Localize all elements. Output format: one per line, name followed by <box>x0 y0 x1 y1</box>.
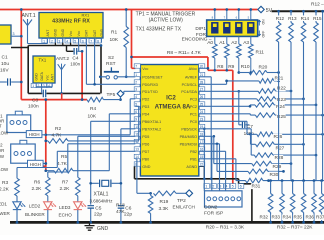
wire GND from IC2 pin8 and AGND to bus <box>135 166 252 222</box>
wire PD2 to sensor1 <box>46 99 136 135</box>
wire right column D <box>315 42 317 181</box>
svg-text:A2: A2 <box>231 40 237 46</box>
svg-text:R12 –: R12 – <box>311 2 324 8</box>
svg-text:PB1: PB1 <box>190 157 197 161</box>
wire GND stub from IC1 <box>11 47 28 49</box>
svg-text:4: 4 <box>66 39 68 43</box>
svg-text:2.2K: 2.2K <box>0 187 10 193</box>
CON2 pin number 3 <box>218 184 224 189</box>
svg-text:R31: R31 <box>252 184 261 190</box>
svg-text:LED2: LED2 <box>29 203 41 208</box>
svg-text:PC4/SDA: PC4/SDA <box>181 90 197 94</box>
svg-text:LED1: LED1 <box>0 202 7 207</box>
resistor R4 <box>87 97 104 102</box>
resistors R12-R15 pullups <box>277 10 280 13</box>
svg-text:DAT: DAT <box>85 30 89 37</box>
capacitor C7 <box>242 122 244 128</box>
svg-text:TP2: TP2 <box>177 198 186 204</box>
resistor R22 <box>199 90 258 92</box>
resistor R18 <box>149 192 152 195</box>
svg-text:C6: C6 <box>125 205 131 211</box>
wire XTAL1 pin9 <box>91 121 136 204</box>
resistors R32-R37 <box>269 179 272 182</box>
junction Vcc drop <box>130 56 133 59</box>
5V supply diamond <box>258 6 264 12</box>
svg-text:4: 4 <box>135 95 137 99</box>
svg-text:GND: GND <box>100 28 104 36</box>
DIP1 switch 4 <box>247 22 254 33</box>
svg-text:R34: R34 <box>283 215 292 220</box>
svg-text:2.2K: 2.2K <box>60 186 71 192</box>
svg-text:1: 1 <box>135 73 137 77</box>
svg-text:R6: R6 <box>34 180 40 186</box>
DIP1 pin stubs 4 <box>250 10 252 21</box>
svg-text:R27: R27 <box>276 145 285 151</box>
svg-text:R20: R20 <box>259 65 268 71</box>
svg-text:E LOW: E LOW <box>0 167 9 172</box>
svg-text:ON: ON <box>262 19 266 25</box>
DIP1 switch 2 <box>223 22 230 33</box>
svg-text:RST: RST <box>106 61 116 67</box>
svg-text:R15: R15 <box>313 16 322 21</box>
svg-text:R20 – R31 = 3.3K: R20 – R31 = 3.3K <box>206 224 245 230</box>
resistor R29 <box>212 135 215 138</box>
svg-text:BLINKER: BLINKER <box>25 212 45 217</box>
DIP1 pin stubs 1 <box>214 10 216 21</box>
svg-text:(ACTIVE LOW): (ACTIVE LOW) <box>149 18 184 24</box>
svg-text:R2: R2 <box>55 126 61 132</box>
svg-text:ANT: ANT <box>51 74 55 81</box>
svg-text:1: 1 <box>32 84 34 88</box>
svg-text:R35: R35 <box>294 215 303 220</box>
svg-text:13: 13 <box>135 147 139 151</box>
wire PD6 to LED2 <box>48 144 136 178</box>
wire GND black drop from RX pin8 <box>100 46 102 94</box>
svg-text:PC5/SCL: PC5/SCL <box>182 83 197 87</box>
capacitor C5 <box>88 206 95 208</box>
svg-text:TX1 433MHZ RF TX: TX1 433MHZ RF TX <box>136 26 182 32</box>
wire PB4/MISO to ISP <box>199 136 212 191</box>
svg-text:PD5: PD5 <box>142 135 149 139</box>
svg-text:4.7K: 4.7K <box>57 161 68 167</box>
svg-text:R1: R1 <box>111 30 117 36</box>
svg-text:R12: R12 <box>276 16 285 21</box>
svg-text:PC2: PC2 <box>190 105 197 109</box>
svg-text:R11: R11 <box>256 50 265 56</box>
wire PD7 to LED1 <box>17 151 135 178</box>
svg-text:R13: R13 <box>288 16 297 21</box>
svg-text:GND: GND <box>35 73 39 81</box>
svg-text:R5: R5 <box>61 154 67 160</box>
svg-text:CON2: CON2 <box>204 204 218 210</box>
svg-text:PD2: PD2 <box>142 97 149 101</box>
svg-text:C4: C4 <box>72 56 78 62</box>
connector sensor 2 <box>11 144 36 163</box>
wires R10 R11 bottoms to R20 row <box>239 58 251 73</box>
svg-text:47K: 47K <box>116 209 125 215</box>
svg-text:22: 22 <box>200 162 204 166</box>
svg-text:PB2: PB2 <box>190 150 197 154</box>
svg-text:R4: R4 <box>90 106 96 112</box>
wire PB3/MOSI to ISP <box>199 144 220 191</box>
CON2 pin number 6 <box>238 184 244 189</box>
svg-text:3: 3 <box>43 84 45 88</box>
svg-text:TP1 = MANUAL TRIGGER: TP1 = MANUAL TRIGGER <box>136 11 196 17</box>
svg-text:R7: R7 <box>62 180 68 186</box>
wire AVREF to AGND <box>199 77 211 179</box>
wire 5V drop x131 <box>132 10 208 69</box>
RF transmitter module TX1 <box>33 56 55 83</box>
svg-text:Vcc: Vcc <box>45 75 49 81</box>
wire PD5 to LED3 <box>78 136 136 177</box>
svg-text:ANT: ANT <box>46 30 50 37</box>
wire GND bus bottom <box>10 221 324 224</box>
wire black pullup bus top right <box>272 10 324 12</box>
svg-text:DAT: DAT <box>93 30 97 37</box>
svg-text:DATA: DATA <box>40 71 44 80</box>
wire TX1 pins bottom <box>36 83 52 93</box>
svg-text:R24: R24 <box>276 104 285 110</box>
CON2 pin number 1 <box>204 184 210 189</box>
wire AVcc stub <box>199 67 208 69</box>
svg-text:PD0/RXD: PD0/RXD <box>142 83 158 87</box>
svg-text:AGND: AGND <box>186 165 197 169</box>
resistor R1 <box>125 10 127 27</box>
svg-text:R30: R30 <box>270 172 279 178</box>
connector sensor 1 <box>7 115 31 133</box>
svg-text:100n: 100n <box>70 62 80 67</box>
wire PB0 to TP2 EN/LATCH <box>135 159 150 194</box>
wire GND black left drop <box>27 46 29 94</box>
resistor R26 <box>199 121 257 134</box>
svg-text:2: 2 <box>38 84 40 88</box>
svg-text:3.3K: 3.3K <box>159 206 170 212</box>
svg-text:2: 2 <box>51 39 53 43</box>
svg-text:2: 2 <box>212 185 214 189</box>
svg-text:R32: R32 <box>260 215 269 220</box>
svg-text:5: 5 <box>74 39 76 43</box>
wire XTAL2 pin10 <box>121 129 135 205</box>
wire PB2 to ISP <box>199 151 226 191</box>
svg-text:IC2: IC2 <box>166 95 176 102</box>
svg-text:R33: R33 <box>272 215 281 220</box>
crystal XTAL1 <box>91 182 121 184</box>
svg-text:LED3: LED3 <box>59 205 71 210</box>
DIP1 pin stubs 2 <box>226 10 228 21</box>
wire right column C <box>303 42 305 181</box>
LED1 power <box>13 202 21 209</box>
svg-text:7: 7 <box>135 64 137 68</box>
svg-text:PB5/SCK: PB5/SCK <box>181 127 197 131</box>
svg-text:8: 8 <box>97 39 99 43</box>
regulator IC1 cut at left edge <box>0 25 11 44</box>
svg-text:3: 3 <box>58 39 60 43</box>
wire right column E <box>322 11 324 180</box>
svg-text:A3: A3 <box>243 40 249 46</box>
svg-text:AVcc: AVcc <box>189 67 197 71</box>
CON2 pin number 5 <box>230 184 236 189</box>
resistor R2 <box>48 139 68 144</box>
svg-text:XTAL1: XTAL1 <box>94 192 109 198</box>
svg-text:Vcc: Vcc <box>142 67 148 71</box>
svg-text:R36: R36 <box>306 215 315 220</box>
svg-text:R9: R9 <box>228 64 234 70</box>
svg-text:PB4/MISO: PB4/MISO <box>180 135 198 139</box>
svg-text:100n: 100n <box>28 104 39 110</box>
resistor R5 <box>54 168 73 173</box>
svg-text:ANT.2: ANT.2 <box>56 56 69 62</box>
svg-text:C3: C3 <box>32 98 38 104</box>
svg-text:16V: 16V <box>0 68 9 74</box>
svg-text:ATMEGA 8A: ATMEGA 8A <box>155 104 191 111</box>
svg-text:R32 – R37= 22K: R32 – R37= 22K <box>277 224 313 230</box>
svg-text:OFF: OFF <box>262 31 266 38</box>
svg-text:EN/LATCH: EN/LATCH <box>173 205 195 210</box>
svg-text:6: 6 <box>240 185 242 189</box>
svg-text:22p: 22p <box>124 212 132 218</box>
wire RX1 DAT to IC2 RXD <box>86 43 135 85</box>
wire 5V left net from IC1 <box>21 10 87 171</box>
wire 5V top rail <box>0 9 258 11</box>
svg-text:1: 1 <box>43 39 45 43</box>
wire SDA row to C7 <box>237 90 240 93</box>
DIP1 ON OFF arrows <box>258 20 261 25</box>
svg-text:1: 1 <box>205 185 207 189</box>
wires R8 R9 bottoms to red rail <box>215 58 227 70</box>
svg-text:PC6/RESET: PC6/RESET <box>142 75 163 79</box>
resistor R20 <box>239 72 249 74</box>
wire PB5/SCK to ISP <box>203 129 205 191</box>
svg-text:7: 7 <box>90 39 92 43</box>
svg-text:PB6/XTAL1: PB6/XTAL1 <box>142 120 161 124</box>
resistor R27 <box>249 133 252 136</box>
LED2 blinker <box>44 202 52 209</box>
svg-text:100n: 100n <box>244 131 255 136</box>
resistor R19 <box>154 191 177 196</box>
CON2 pin number 2 <box>211 184 217 189</box>
svg-text:ANT.1: ANT.1 <box>22 13 36 19</box>
svg-text:PD6: PD6 <box>142 142 149 146</box>
svg-text:3: 3 <box>13 32 15 36</box>
resistor R31 <box>199 159 246 181</box>
svg-text:FOR: FOR <box>0 148 4 153</box>
wire PD4 to R5 <box>73 114 135 171</box>
svg-text:10K: 10K <box>88 114 97 120</box>
svg-text:6: 6 <box>135 110 137 114</box>
svg-text:HIGH: HIGH <box>29 132 40 137</box>
svg-text:C5: C5 <box>95 205 101 211</box>
svg-text:C1: C1 <box>2 55 8 61</box>
CON2 pin number 4 <box>224 184 230 189</box>
svg-text:10u: 10u <box>1 61 9 67</box>
svg-text:ECHO: ECHO <box>59 213 73 218</box>
RF receiver module RX1 <box>39 13 103 39</box>
svg-text:GND: GND <box>54 28 58 36</box>
resistor R21 <box>199 81 259 84</box>
svg-text:GND: GND <box>97 226 109 232</box>
svg-text:6: 6 <box>82 39 84 43</box>
wire right column A <box>278 42 280 181</box>
svg-text:PD3: PD3 <box>142 105 149 109</box>
svg-text:AVREF: AVREF <box>185 75 198 79</box>
svg-text:3.6864MHz: 3.6864MHz <box>90 199 114 204</box>
capacitor C3 <box>28 92 100 94</box>
svg-text:R14: R14 <box>301 16 310 21</box>
resistor R6 <box>46 177 51 196</box>
ground symbol <box>89 222 91 225</box>
svg-text:A1: A1 <box>219 40 225 46</box>
resistor R7 <box>76 177 81 196</box>
svg-text:GND: GND <box>61 28 65 36</box>
svg-text:PC3: PC3 <box>190 97 197 101</box>
DIP1 switch 1 <box>211 22 218 33</box>
svg-text:RX1: RX1 <box>82 13 91 18</box>
svg-text:HIGH: HIGH <box>30 162 41 167</box>
svg-text:POWER: POWER <box>0 211 11 216</box>
test point TP2 EN/LATCH <box>176 192 186 194</box>
wire RX1 GND pins to black <box>55 43 70 46</box>
wire PD3 to R2 <box>68 106 139 141</box>
capacitor C6 <box>118 206 125 208</box>
svg-text:PC0: PC0 <box>190 120 197 124</box>
resistor R30 <box>216 142 219 145</box>
svg-text:GND: GND <box>142 165 151 169</box>
svg-text:Vcc: Vcc <box>77 31 81 37</box>
LED3 echo <box>74 202 82 209</box>
svg-text:PB0: PB0 <box>142 157 149 161</box>
svg-text:R3: R3 <box>2 180 8 186</box>
svg-text:E LOW: E LOW <box>0 131 9 136</box>
svg-text:S2: S2 <box>108 55 114 61</box>
wire reset line <box>100 76 135 78</box>
resistors R8 R9 R10 R11 <box>213 44 218 58</box>
svg-text:22p: 22p <box>94 212 102 218</box>
svg-text:A0: A0 <box>207 40 213 46</box>
resistor R25 <box>199 114 255 115</box>
resistor R28 <box>199 129 254 155</box>
svg-text:PC1: PC1 <box>190 112 197 116</box>
svg-text:4: 4 <box>48 84 50 88</box>
svg-text:433MHz RF RX: 433MHz RF RX <box>52 19 90 25</box>
svg-text:R29: R29 <box>273 164 282 170</box>
svg-text:PD4: PD4 <box>142 112 149 116</box>
svg-text:Vcc: Vcc <box>69 31 73 37</box>
wire right column B <box>290 42 292 181</box>
svg-text:R8 – R11= 4.7K: R8 – R11= 4.7K <box>167 50 202 56</box>
resistor R24 <box>199 105 255 106</box>
svg-text:R8: R8 <box>217 64 223 70</box>
svg-text:PB3/MOSI: PB3/MOSI <box>180 142 197 146</box>
svg-text:R18: R18 <box>116 202 125 208</box>
resistor R23 <box>199 98 257 100</box>
svg-text:PD1/TXD: PD1/TXD <box>142 90 158 94</box>
svg-text:R19: R19 <box>160 199 169 205</box>
svg-text:R10: R10 <box>241 64 250 70</box>
svg-text:FOR ISP: FOR ISP <box>204 211 223 217</box>
capacitor C4 <box>67 46 74 52</box>
DIP1 pin stubs 3 <box>238 10 240 21</box>
wire GND black horizontal under RX1 <box>28 45 101 47</box>
microcontroller IC2 ATMEGA 8A <box>140 65 198 177</box>
svg-text:R37: R37 <box>316 215 324 220</box>
svg-text:PB7/XTAL2: PB7/XTAL2 <box>142 127 161 131</box>
resistor R3 <box>15 178 20 196</box>
wire 5V to AVcc and R8-R11 rail <box>208 57 233 184</box>
svg-text:5: 5 <box>232 185 234 189</box>
label HIGH 2 <box>28 160 44 167</box>
svg-text:2.2K: 2.2K <box>32 186 43 192</box>
svg-text:4.7K: 4.7K <box>52 132 63 138</box>
svg-text:9: 9 <box>135 117 137 121</box>
DIP1 switch 3 <box>235 22 242 33</box>
svg-text:DIP1: DIP1 <box>195 26 206 32</box>
svg-text:3: 3 <box>135 87 137 91</box>
svg-text:TP5: TP5 <box>107 92 116 98</box>
svg-text:10K: 10K <box>110 37 119 43</box>
wire AGND stub <box>199 166 204 179</box>
label HIGH 1 <box>26 131 42 138</box>
svg-text:2: 2 <box>135 80 137 84</box>
svg-text:PD7: PD7 <box>142 150 149 154</box>
connector CON2 for ISP <box>205 191 243 207</box>
svg-text:TX1: TX1 <box>39 58 47 63</box>
